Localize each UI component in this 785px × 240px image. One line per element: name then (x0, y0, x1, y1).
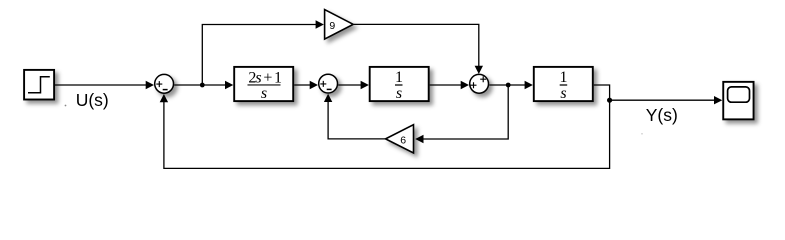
sum junction S2 (319, 74, 338, 93)
wire gain 6 to S2 bottom (324, 94, 385, 139)
node A branch dot (200, 83, 205, 88)
node C dot (607, 98, 612, 103)
svg-text:U(s): U(s) (76, 90, 109, 110)
svg-text:9: 9 (329, 20, 335, 32)
gain block 9 (325, 10, 354, 39)
wire node C to scope (610, 96, 723, 104)
node B dot after S3 (506, 83, 511, 88)
annotation marker dot (65, 105, 67, 107)
wire block1 to S2 (294, 81, 318, 89)
wire gain 9 to S3 top (354, 24, 483, 74)
wire S2 to block2 (338, 81, 369, 89)
scope block (723, 82, 753, 120)
sum junction S1 (155, 74, 174, 93)
wire inner feedback node B down to gain 6 (415, 85, 508, 143)
wire S1 to block1 (174, 81, 233, 89)
svg-text:6: 6 (400, 134, 406, 146)
svg-text:1: 1 (560, 69, 568, 86)
svg-text:Y(s): Y(s) (646, 105, 678, 125)
wire block3 to node C (594, 85, 610, 100)
integrator block U2 1/s (370, 67, 429, 102)
step source block (24, 70, 54, 100)
wire outer feedback node C to S1 bottom (160, 94, 610, 168)
svg-text:s: s (396, 85, 402, 102)
svg-text:2s+1: 2s+1 (248, 69, 282, 86)
svg-text:s: s (560, 85, 566, 102)
svg-text:1: 1 (395, 69, 403, 86)
svg-text:s: s (261, 85, 267, 102)
wire branch node A up to gain 9 (202, 20, 324, 85)
transfer function block (2s+1)/s (234, 67, 293, 102)
wire step to S1 (55, 81, 154, 89)
wire S3 to block3 (489, 81, 533, 89)
sum junction S3 (470, 74, 489, 93)
gain block 6 (386, 125, 414, 153)
integrator block U3 1/s (534, 67, 593, 102)
stray speck (641, 133, 643, 135)
wire block2 to S3 (430, 81, 469, 89)
